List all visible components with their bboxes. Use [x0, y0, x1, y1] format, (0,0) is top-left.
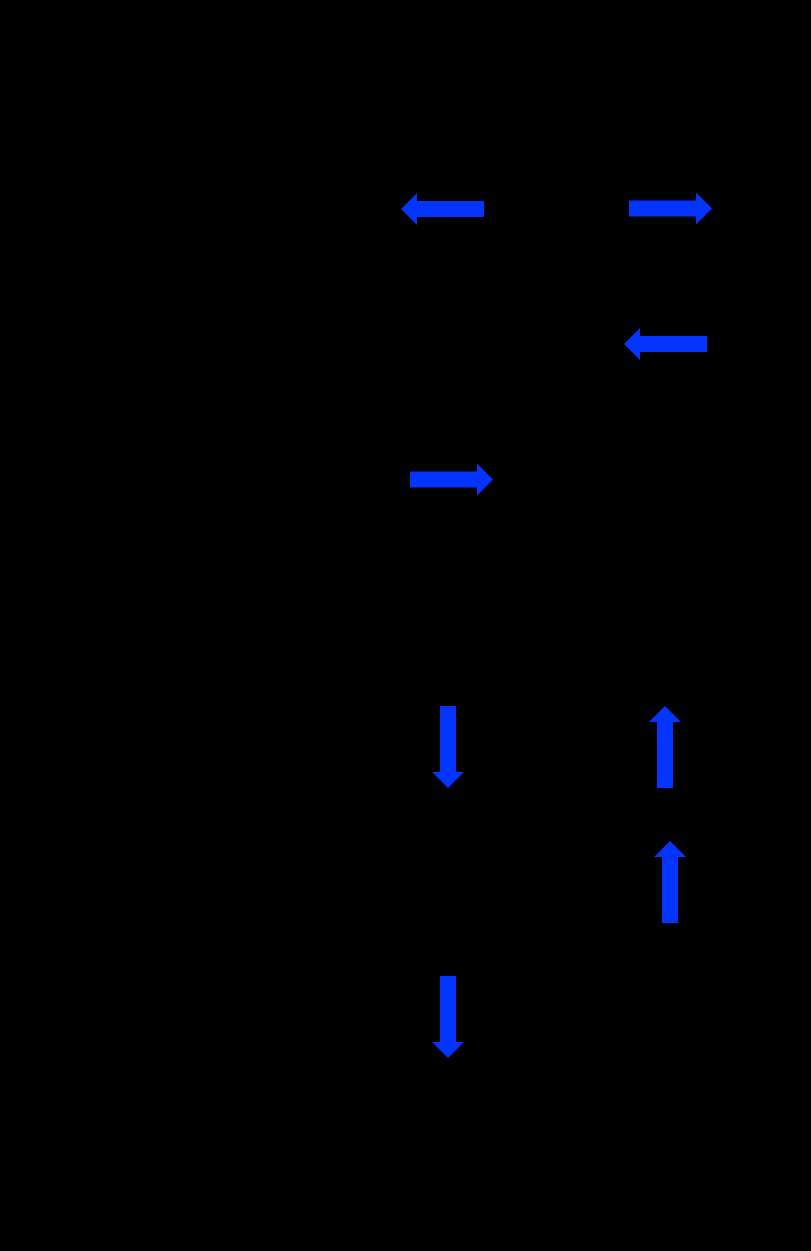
arrow 2: top-right block arrow pointing right — [629, 193, 712, 225]
arrow 8: bottom block arrow pointing down — [432, 976, 464, 1058]
arrow 7: block arrow pointing up (right column, lower) — [654, 841, 686, 923]
arrow 1: top-left block arrow pointing left — [401, 193, 484, 225]
arrow 4: center-left block arrow pointing right — [410, 464, 493, 496]
arrow 3: middle-right block arrow pointing left — [624, 328, 707, 360]
arrow 5: block arrow pointing down (left column) — [432, 706, 464, 788]
arrow 6: block arrow pointing up (right column, upper) — [649, 706, 681, 788]
